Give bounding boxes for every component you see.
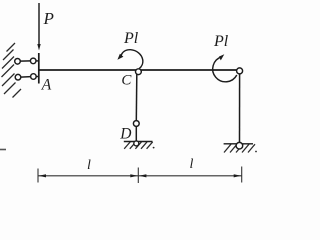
dimension line [38,167,242,184]
moment Pl arc at right end [213,54,237,81]
stray mark at left edge [0,149,6,151]
dimension tick at middle (under C) [137,168,139,184]
wire: dimension horizontal line [38,175,242,177]
svg-text:D: D [119,125,131,142]
dimension arrow mid pointing right [130,174,137,177]
dimension tick at left (under A) [37,169,39,183]
pin circle of right support [236,142,243,149]
wire: main horizontal beam [39,69,237,71]
ground hatching of right support [224,144,255,152]
wire: stub top-right circle to bar A [36,60,39,62]
force P arrow [37,3,40,51]
wire: vertical member C to D [135,74,138,121]
svg-text:l: l [87,158,91,173]
moment Pl arc at C [117,50,142,69]
ground line below D [124,141,153,143]
dot after right ground hatching [255,151,257,153]
wall hatching at left support [2,43,22,98]
wire: bottom link of double-link support [21,76,31,79]
end bar at A [38,53,40,84]
svg-text:P: P [43,9,54,28]
svg-text:Pl: Pl [213,33,229,50]
svg-text:C: C [121,73,132,89]
ground hatching below D [124,142,153,149]
dimension tick at right [241,167,243,183]
pin circle bottom-left of support [15,74,21,80]
svg-text:l: l [190,157,194,172]
pin circle top-left of support [15,59,21,65]
hinge circle at node C [136,69,142,75]
svg-text:Pl: Pl [123,30,139,47]
hinge circle at D [133,121,139,127]
ground line of right support [224,143,253,145]
pin circle bottom-right of support [31,74,37,80]
pin circle of support below D [134,141,139,146]
dimension arrow mid pointing left [139,174,146,177]
wire: right vertical member [239,74,241,142]
dimension arrow right outward [234,174,241,177]
svg-text:A: A [41,76,52,93]
pin circle top-right of support [30,58,36,64]
wire: short link below D [135,126,137,141]
dot after D ground hatching [153,147,155,149]
wire: top link of double-link support [20,60,30,62]
hinge circle at right end of beam [237,68,243,74]
wire: stub bottom-right circle to bar A [36,76,39,78]
dimension arrow left outward [39,174,46,177]
